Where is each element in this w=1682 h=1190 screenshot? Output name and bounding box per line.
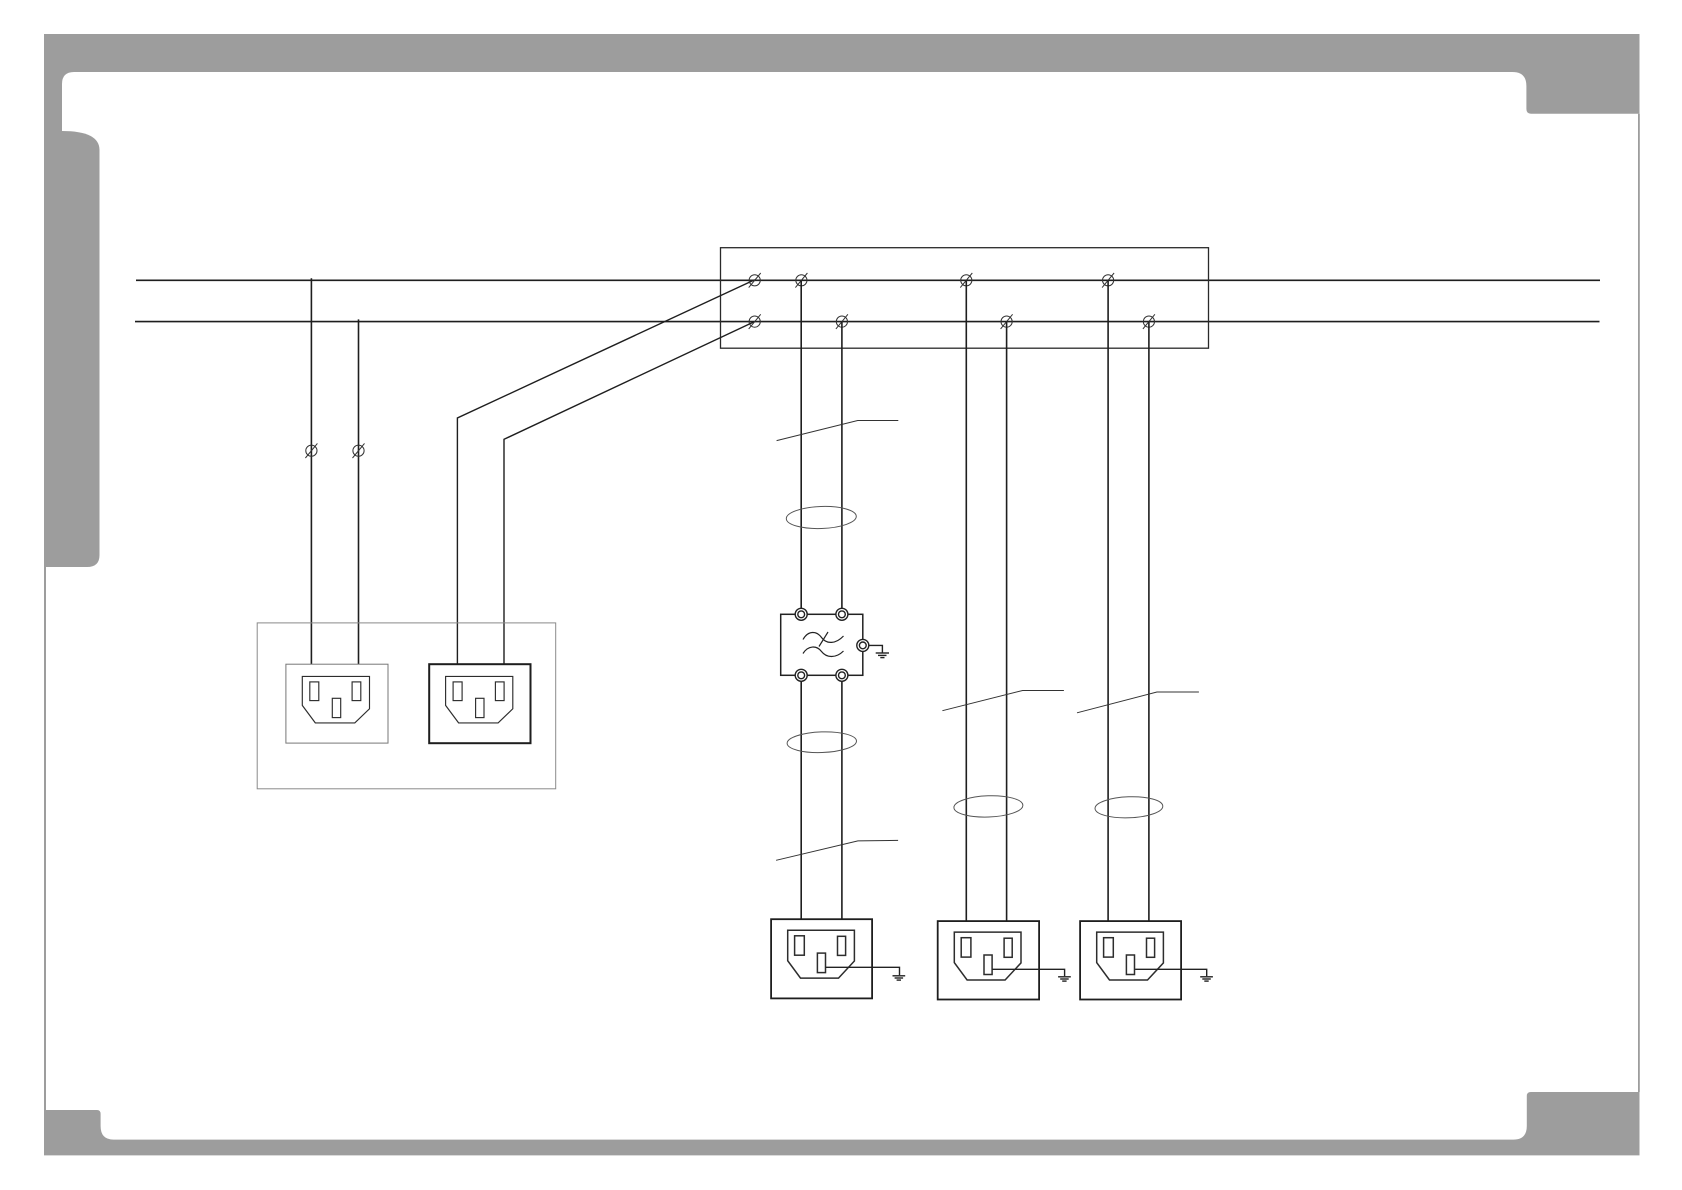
pin A2 [796, 275, 807, 286]
wire noise filter to outlet 1 (right) [841, 681, 843, 919]
callout leader line (outlet 2 wires) [942, 691, 1064, 711]
AC outlet 3 [1080, 921, 1181, 999]
wire CN1 pin B4 down to outlet 3 [1148, 322, 1150, 922]
pin A3 [961, 275, 972, 286]
ferrite core (ellipse) on filter wires [786, 505, 857, 529]
pin B3 [1001, 316, 1012, 327]
pin B1 [749, 316, 760, 327]
wire CN1 pin A2 down to noise filter [800, 280, 802, 608]
wire from bus L down to left AC inlet pin 1 [310, 278, 312, 664]
AC inlet 1 (left bay, left) [286, 664, 388, 743]
wire CN1 pin B3 down to outlet 2 [1006, 322, 1008, 922]
callout leader line (filter wires) [777, 421, 899, 441]
wire from bus N down to left AC inlet pin 2 [358, 319, 360, 664]
AC outlet 2 [938, 921, 1039, 999]
ground (outlet 1) [826, 967, 906, 980]
ferrite core (ellipse) outlet 3 [1095, 796, 1163, 819]
wire noise filter to outlet 1 (left) [800, 681, 802, 919]
terminal symbol on wire at left (circle-slash) [353, 443, 365, 458]
pin A1 [749, 275, 760, 286]
ground (noise filter) [869, 645, 889, 657]
wire bus line L (upper) [136, 279, 1600, 281]
connector block CN1 (power input PCB outline) [721, 248, 1209, 349]
callout leader line (outlet 1 wires) [776, 840, 898, 860]
wire: diagonal from right inlet to CN1 pin2 [504, 322, 755, 665]
wire CN1 pin A4 down to outlet 3 [1107, 280, 1109, 921]
outlet bay box (left, light) [257, 623, 556, 789]
wire: diagonal from right inlet to CN1 pin1 [457, 280, 754, 665]
filter symbol (tildes + slash) [803, 632, 844, 657]
wire bus line N (lower) [135, 321, 1600, 323]
CN1 pin symbols (circle-slash) top row [749, 273, 1155, 329]
ferrite core (ellipse) outlet 2 [954, 795, 1024, 819]
AC inlet 2 (left bay, right) [429, 664, 530, 743]
wire CN1 pin A3 down to outlet 2 [965, 280, 967, 921]
callout leader line (outlet 3 wires) [1077, 692, 1199, 713]
pin B2 [836, 316, 847, 327]
ground (outlet 3) [1135, 969, 1213, 981]
pin B4 [1143, 316, 1154, 327]
ferrite core (ellipse) below filter [787, 731, 857, 754]
wire CN1 pin B2 down to noise filter [841, 322, 843, 609]
noise filter NF1 [781, 608, 869, 681]
pin A4 [1103, 275, 1114, 286]
AC outlet 1 (below filter) [771, 919, 872, 998]
terminal symbol on wire at left (circle-slash) [305, 443, 317, 458]
ground (outlet 2) [992, 969, 1070, 981]
filter terminal pins [795, 608, 869, 681]
